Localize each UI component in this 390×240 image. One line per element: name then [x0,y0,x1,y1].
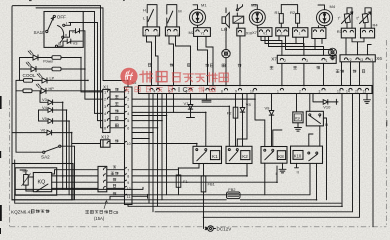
svg-text:H: H [143,8,146,13]
svg-text:2: 2 [281,32,283,36]
svg-text:III: III [58,41,61,46]
svg-text:KQ: KQ [38,180,46,186]
svg-text:F1: F1 [183,179,188,184]
svg-text:5: 5 [169,90,171,94]
svg-text:XIII: XIII [246,30,252,35]
svg-text:8: 8 [127,175,129,179]
svg-text:14: 14 [346,90,350,94]
svg-text:M4: M4 [330,4,336,9]
svg-text:2: 2 [127,98,129,102]
svg-text:2: 2 [284,59,286,63]
svg-text:K1: K1 [212,154,218,159]
svg-text:OFF: OFF [57,14,66,19]
svg-text:II: II [297,169,299,174]
svg-text:Y2: Y2 [348,58,352,62]
svg-text:(15A): (15A) [94,216,105,221]
svg-text:12: 12 [337,90,341,94]
svg-text:I: I [66,20,67,25]
svg-text:2: 2 [167,32,169,36]
svg-text:5: 5 [127,119,129,123]
svg-text:M: M [178,9,181,14]
svg-text:V4: V4 [42,105,48,110]
svg-text:X7: X7 [271,56,277,61]
svg-text:9: 9 [127,181,129,185]
svg-text:13: 13 [363,90,367,94]
svg-text:10: 10 [127,142,131,146]
svg-text:COOL: COOL [23,73,36,78]
svg-text:4: 4 [154,90,156,94]
svg-text:HP: HP [49,87,55,91]
svg-text:FB2: FB2 [228,187,236,192]
svg-text:9: 9 [235,90,237,94]
svg-text:21: 21 [355,90,359,94]
svg-text:11: 11 [127,195,131,199]
svg-text:10: 10 [250,90,254,94]
svg-text:t°: t° [338,15,341,20]
svg-text:V3: V3 [42,97,48,102]
svg-text:V10: V10 [323,105,331,110]
svg-text:Y1: Y1 [201,32,205,36]
svg-text:I: I [178,85,180,94]
svg-text:6: 6 [127,126,129,130]
svg-text:Y1: Y1 [369,58,373,62]
svg-text:M3: M3 [251,3,257,8]
svg-text:LP: LP [50,77,55,81]
svg-text:2: 2 [299,90,301,94]
svg-text:X7: X7 [252,30,258,35]
svg-text:X12: X12 [101,135,110,140]
svg-text:II: II [65,32,67,37]
svg-text:V9: V9 [265,106,271,111]
svg-text:1: 1 [299,32,301,36]
svg-text:V1: V1 [263,32,267,36]
svg-text:t°: t° [357,15,360,20]
svg-text:1: 1 [157,32,159,36]
svg-text:DC12V: DC12V [217,227,233,232]
svg-text:R2: R2 [290,10,296,15]
svg-text:1: 1 [277,90,279,94]
svg-text:3: 3 [306,59,308,63]
svg-text:K10: K10 [294,154,302,159]
svg-text:V2: V2 [72,29,78,34]
svg-text:SA2: SA2 [41,154,50,159]
svg-text:8: 8 [221,90,223,94]
svg-text:3: 3 [319,90,321,94]
svg-text:M1: M1 [201,2,207,7]
svg-text:SA10: SA10 [34,30,46,35]
svg-text:Power: Power [43,59,54,63]
svg-text:Y3: Y3 [359,58,363,62]
svg-text:K9: K9 [295,117,300,121]
svg-text:KQZN6.41: KQZN6.41 [11,210,33,215]
svg-text:I: I [276,171,277,176]
svg-text:3: 3 [127,105,129,109]
svg-text:C: C [182,85,187,94]
svg-text:V5: V5 [42,116,48,121]
svg-text:2: 2 [145,32,147,36]
svg-text:K8: K8 [278,154,284,159]
svg-text:4: 4 [127,112,129,116]
svg-text:1: 1 [177,32,179,36]
svg-text:7: 7 [127,168,129,172]
svg-text:K2: K2 [242,154,248,159]
svg-text:V6: V6 [41,127,47,132]
svg-text:1: 1 [326,59,328,63]
svg-text:R4: R4 [373,23,379,28]
svg-text:X6: X6 [376,56,382,61]
